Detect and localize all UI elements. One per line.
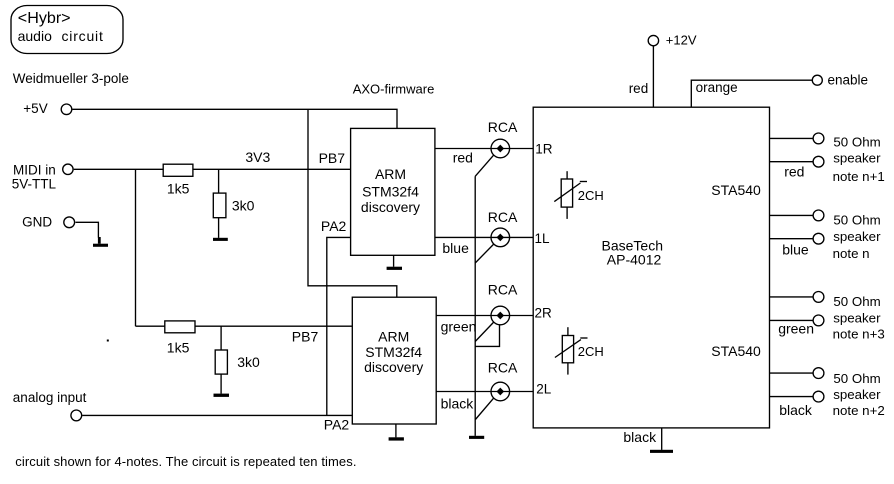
wire speaker out 1a <box>769 137 813 139</box>
potentiometer 2CH (lower) <box>555 327 604 374</box>
ground (U2) <box>389 424 404 441</box>
svg-text:blue: blue <box>442 240 469 256</box>
wire analog input <box>82 414 352 416</box>
ground (amp) <box>650 450 673 453</box>
wire speaker out 4b <box>769 396 813 398</box>
wire PA2 link to ARM1 <box>327 237 351 415</box>
svg-text:black: black <box>779 402 813 418</box>
svg-text:PB7: PB7 <box>319 150 346 166</box>
wire red (U1 to RCA1) <box>435 148 533 150</box>
svg-text:PA2: PA2 <box>324 417 350 433</box>
svg-text:note n+2: note n+2 <box>833 403 885 418</box>
svg-text:AXO-firmware: AXO-firmware <box>353 82 435 97</box>
svg-text:RCA: RCA <box>488 209 518 225</box>
svg-text:orange: orange <box>696 80 738 95</box>
ground (R2) <box>213 238 228 241</box>
svg-text:PA2: PA2 <box>321 218 347 234</box>
wire row1 after R1 <box>193 168 351 170</box>
svg-text:1k5: 1k5 <box>167 339 190 355</box>
svg-text:+12V: +12V <box>666 32 697 47</box>
svg-text:note n+3: note n+3 <box>833 327 885 342</box>
terminal +12V <box>648 32 697 47</box>
svg-text:GND: GND <box>22 215 52 230</box>
svg-text:red: red <box>629 81 649 96</box>
svg-text:enable: enable <box>828 72 869 87</box>
svg-text:ARM: ARM <box>378 328 409 344</box>
wire black (U2 to RCA4) <box>436 391 533 393</box>
wire red +12V <box>652 46 654 107</box>
wire RCA shield bus <box>474 176 476 436</box>
ground (U1) <box>387 255 402 270</box>
svg-text:note n+1: note n+1 <box>833 169 885 184</box>
terminal analog input <box>13 390 87 421</box>
svg-text:RCA: RCA <box>488 360 518 376</box>
svg-text:red: red <box>453 150 473 166</box>
svg-text:5V-TTL: 5V-TTL <box>12 176 57 191</box>
svg-text:audio: audio <box>18 28 52 44</box>
wire black ground (amp) <box>661 428 663 450</box>
svg-text:RCA: RCA <box>488 282 518 298</box>
svg-text:2CH: 2CH <box>578 344 604 359</box>
wire +5V branch to ARM2 <box>308 109 397 297</box>
terminal GND <box>22 215 75 230</box>
terminal speaker 2a <box>813 210 824 221</box>
wire speaker out 3a <box>769 296 813 298</box>
svg-text:STA540: STA540 <box>711 182 761 198</box>
svg-text:1k5: 1k5 <box>167 180 190 196</box>
op-amp U2 ARM STM32f4 discovery <box>352 297 436 424</box>
svg-text:green: green <box>778 321 814 337</box>
svg-text:RCA: RCA <box>488 119 518 135</box>
resistor R1 1k5 <box>163 164 193 196</box>
wire speaker out 1b <box>769 161 813 163</box>
wire +5V rail <box>72 109 397 128</box>
wire green (U2 to RCA3) <box>436 315 533 317</box>
connector RCA3 <box>475 282 518 347</box>
wire row2 left <box>136 325 165 327</box>
svg-text:<Hybr>: <Hybr> <box>18 9 71 27</box>
svg-text:50 Ohm: 50 Ohm <box>833 212 880 227</box>
svg-text:+5V: +5V <box>23 101 47 116</box>
resistor R3 1k5 <box>165 321 195 355</box>
stray dot <box>107 340 109 342</box>
svg-text:speaker: speaker <box>833 229 881 244</box>
terminal enable <box>812 72 868 87</box>
svg-text:AP-4012: AP-4012 <box>607 252 662 268</box>
terminal +5V <box>23 101 72 116</box>
svg-text:speaker: speaker <box>833 387 881 402</box>
title box <box>11 6 123 54</box>
svg-text:STM32f4: STM32f4 <box>365 344 422 360</box>
terminal speaker 4b <box>813 391 824 402</box>
wire row2 right <box>195 325 352 327</box>
resistor R4 3k0 <box>215 326 260 394</box>
wire MIDI row1 <box>74 168 164 170</box>
wire speaker out 2b <box>769 238 813 240</box>
svg-text:circuit shown for 4-notes. The: circuit shown for 4-notes. The circuit i… <box>15 454 356 469</box>
amplifier BaseTech AP-4012 <box>533 107 769 428</box>
svg-text:note n: note n <box>833 246 870 261</box>
terminal speaker 3b <box>813 315 824 326</box>
wire blue (U1 to RCA2) <box>435 236 533 238</box>
connector RCA4 <box>475 360 518 420</box>
svg-text:2L: 2L <box>536 382 552 397</box>
wire speaker out 2a <box>769 214 813 216</box>
terminal speaker 3a <box>813 292 824 303</box>
svg-text:STM32f4: STM32f4 <box>362 184 419 200</box>
terminal speaker 1a <box>813 133 824 144</box>
svg-text:Weidmueller 3-pole: Weidmueller 3-pole <box>13 71 129 86</box>
svg-text:3k0: 3k0 <box>237 354 260 370</box>
svg-text:circuit: circuit <box>62 28 104 44</box>
potentiometer 2CH (upper) <box>554 171 604 219</box>
svg-text:3k0: 3k0 <box>232 197 255 213</box>
wire orange enable <box>691 80 812 107</box>
svg-text:discovery: discovery <box>361 199 420 215</box>
svg-text:red: red <box>784 163 804 179</box>
svg-text:50 Ohm: 50 Ohm <box>833 371 880 386</box>
ground (GND terminal) <box>98 237 101 244</box>
svg-text:black: black <box>623 429 657 445</box>
svg-text:analog input: analog input <box>13 390 87 405</box>
ground (R4) <box>214 394 230 397</box>
wire GND <box>76 222 99 237</box>
terminal speaker 1b <box>813 156 824 167</box>
svg-text:50 Ohm: 50 Ohm <box>833 294 880 309</box>
connector RCA2 <box>475 209 518 263</box>
svg-text:2CH: 2CH <box>578 188 604 203</box>
terminal MIDI in <box>12 163 73 192</box>
svg-text:PB7: PB7 <box>292 329 319 345</box>
svg-text:1L: 1L <box>535 231 551 246</box>
svg-text:STA540: STA540 <box>711 343 761 359</box>
connector RCA1 <box>475 119 518 176</box>
svg-text:speaker: speaker <box>833 150 881 165</box>
terminal speaker 2b <box>813 233 824 244</box>
svg-text:ARM: ARM <box>375 166 406 182</box>
svg-text:blue: blue <box>782 242 809 258</box>
op-amp U1 ARM STM32f4 discovery <box>351 128 435 255</box>
svg-text:1R: 1R <box>535 142 553 157</box>
svg-text:speaker: speaker <box>833 310 881 325</box>
svg-text:green: green <box>441 319 477 335</box>
terminal speaker 4a <box>813 368 824 379</box>
wire speaker out 4a <box>769 372 813 374</box>
wire speaker out 3b <box>769 319 813 321</box>
svg-text:black: black <box>441 396 475 412</box>
resistor R2 3k0 <box>213 169 254 238</box>
svg-text:3V3: 3V3 <box>245 149 270 165</box>
ground (RCA bus) <box>469 436 484 439</box>
wire MIDI branch down to row2 <box>135 169 137 326</box>
svg-text:2R: 2R <box>535 305 553 320</box>
svg-text:50 Ohm: 50 Ohm <box>833 134 880 149</box>
svg-text:discovery: discovery <box>364 359 423 375</box>
